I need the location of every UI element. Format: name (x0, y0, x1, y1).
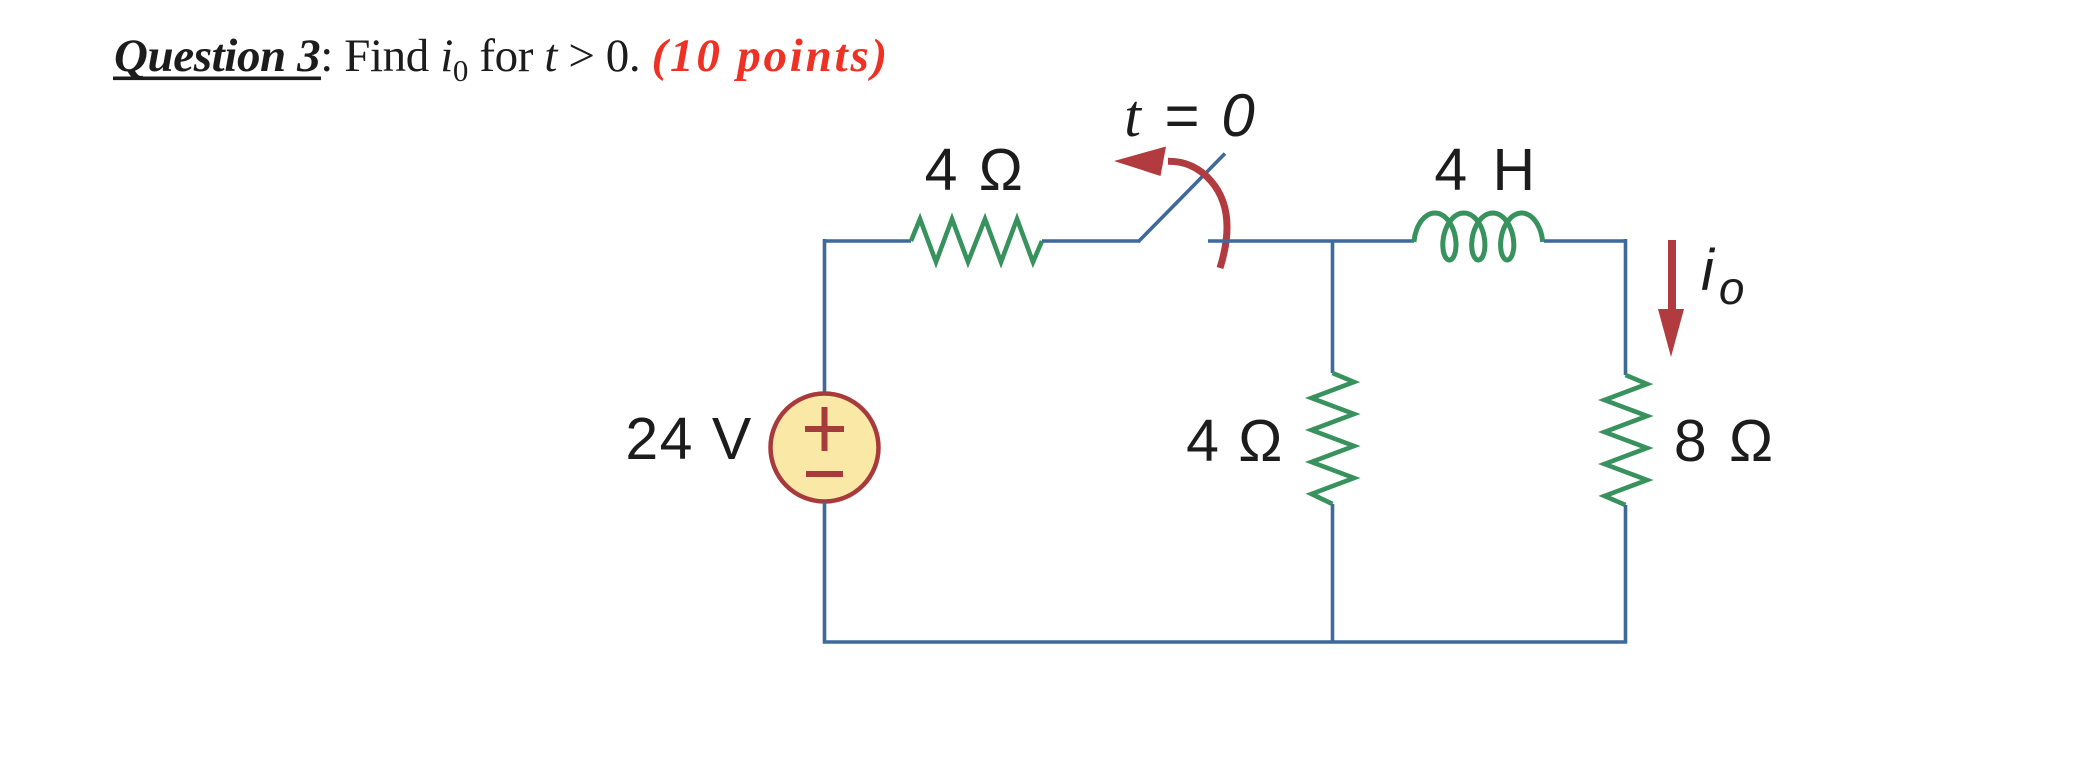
svg-text:24 V: 24 V (625, 406, 752, 472)
svg-text:t = 0: t = 0 (1124, 82, 1257, 149)
resistor R1 4ohm horizontal (911, 219, 1042, 262)
switch blade (1138, 154, 1225, 243)
wire right of switch (1208, 239, 1414, 243)
voltage source minus sign (806, 471, 843, 477)
wire left vertical bottom (823, 502, 827, 644)
wire right of inductor (1544, 239, 1627, 243)
current arrow i_o (1658, 240, 1684, 357)
wire middle vertical top (1331, 241, 1335, 373)
voltage source plus sign (805, 407, 844, 451)
switch arc arrowhead (1114, 147, 1166, 177)
voltage source V1 circle (771, 394, 879, 502)
resistor R3 8ohm vertical right (1605, 375, 1648, 505)
wire between R1 and switch (1042, 239, 1139, 243)
wire top left horizontal (823, 239, 911, 243)
wire left vertical top (823, 239, 827, 393)
resistor R2 4ohm vertical middle (1312, 373, 1355, 504)
title "Question 3: Find i0 for t > 0. (10 points)" (113, 30, 890, 88)
switch arc red (1168, 161, 1227, 268)
svg-text:4 Ω: 4 Ω (925, 137, 1026, 203)
wire right vertical bottom (1624, 505, 1628, 644)
wire middle vertical bottom (1331, 504, 1335, 644)
svg-text:4 Ω: 4 Ω (1186, 408, 1284, 474)
svg-text:io: io (1701, 238, 1744, 314)
svg-text:8 Ω: 8 Ω (1674, 408, 1776, 474)
inductor L1 4H coil (1414, 213, 1543, 260)
wire bottom horizontal (823, 640, 1627, 644)
svg-text:4 H: 4 H (1434, 137, 1539, 203)
wire right vertical top (1624, 239, 1628, 375)
